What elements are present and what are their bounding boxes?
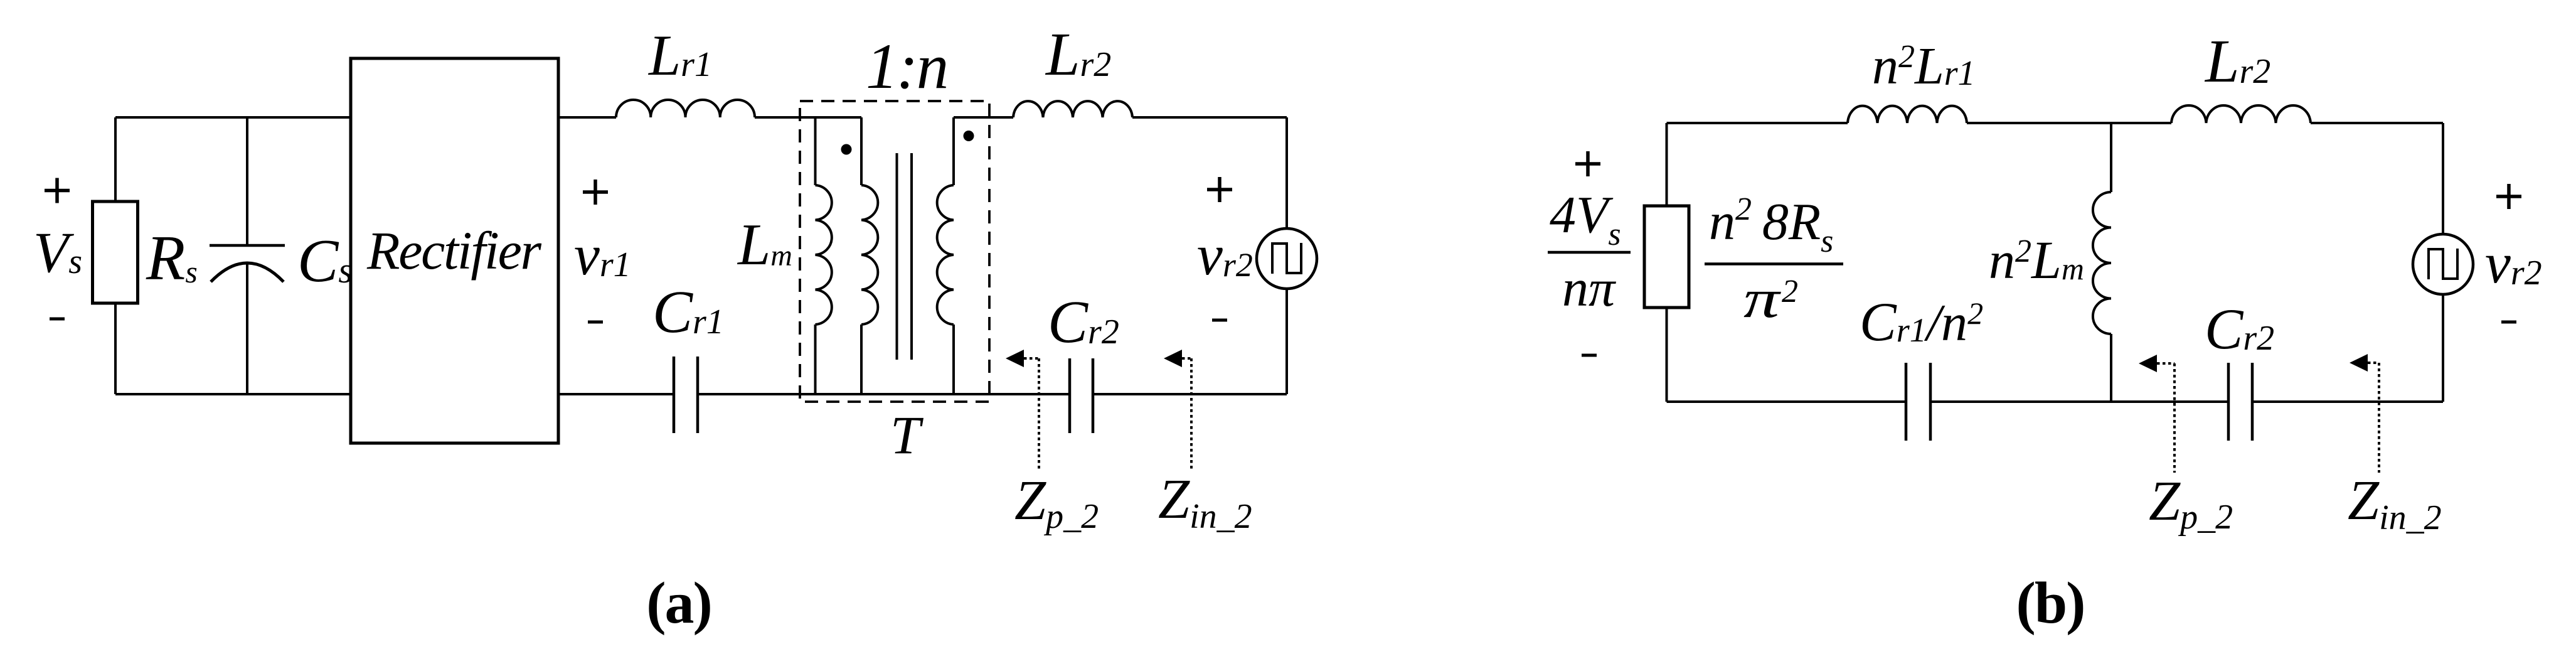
label + of source (b) (1575, 151, 1600, 176)
svg-text:T: T (890, 405, 923, 465)
transformer core (897, 153, 912, 360)
transformer T dashed box (800, 101, 989, 402)
wire left vertical upper (b) (1666, 123, 1668, 206)
wire left vertical lower (a) (114, 303, 117, 394)
wire Cr2 to right corner (bottom, a) (1093, 393, 1287, 395)
svg-text:(a): (a) (646, 571, 711, 636)
svg-text:(b): (b) (2016, 571, 2085, 636)
polarity dot primary (841, 144, 852, 155)
svg-text:n2 8Rs: n2 8Rs (1709, 191, 1833, 259)
wire top-left loop (a) (115, 116, 351, 119)
wire Cr1n2 to junction bottom (b) (1930, 400, 2228, 403)
source 4Vs/npi (rectangle) (b) (1644, 206, 1689, 308)
wire Cs lower lead (246, 263, 248, 394)
inductor n^2 Lr1 (b) (1848, 106, 1967, 123)
wire right vertical lower (a) (1285, 289, 1288, 394)
transformer primary winding (860, 117, 863, 185)
wire Lr1 to transformer primary (755, 116, 861, 119)
svg-text:2: 2 (1782, 274, 1798, 309)
arrow Zin_2 (b) (2350, 354, 2368, 372)
inductor Lr1 (616, 100, 755, 117)
wire Lr2 to right corner (b) (2311, 122, 2443, 124)
label + of vr1 (583, 180, 608, 205)
wire right vertical upper (a) (1285, 117, 1288, 228)
svg-text:π: π (1743, 268, 1782, 329)
wire junction down to n2Lm (2110, 123, 2112, 192)
wire secondary to Lr2 (954, 116, 1013, 119)
wire right vertical upper (b) (2442, 123, 2444, 235)
inductor Lr2 (b) (2171, 105, 2311, 123)
source vr2 (square-wave) (b) (2413, 234, 2473, 294)
wire rectifier to Cr1 (558, 393, 674, 395)
inductor Lm (magnetizing, left rail) (814, 117, 817, 185)
label + of vr2 (b) (2496, 184, 2521, 209)
label - of source (b) (1582, 354, 1597, 357)
wire left vertical lower (b) (1666, 308, 1668, 402)
arrow Zp_2 (b) (2139, 355, 2157, 372)
capacitor Cr2 (b) (2227, 363, 2230, 441)
label + of Vs (45, 178, 70, 203)
wire n2Lr1 to junction (b) (1967, 122, 2171, 124)
inductor n^2 Lm (b) (2093, 192, 2111, 334)
capacitor Cr2 (a) (1068, 358, 1072, 433)
label - of Vs (50, 318, 65, 321)
arrow Zp_2 (a) (1006, 350, 1024, 367)
source Vs (rectangle) (93, 201, 138, 303)
wire Cr1 to Cr2 (bottom) (698, 393, 1070, 395)
arrow Zin_2 (a) (1164, 350, 1182, 367)
source vr2 (square-wave) (a) (1257, 228, 1317, 289)
wire rectifier to Lr1 (558, 116, 616, 119)
rectifier block (351, 58, 558, 443)
polarity dot secondary (964, 131, 974, 141)
svg-text:Rectifier: Rectifier (366, 220, 542, 281)
wire right vertical lower (b) (2442, 294, 2444, 402)
capacitor Cr1/n^2 (b) (1905, 363, 1908, 441)
capacitor Cs (210, 244, 285, 247)
svg-text:1:n: 1:n (866, 31, 947, 102)
label - of vr2 (b) (2501, 321, 2516, 324)
wire bottom-left loop (a) (115, 393, 351, 395)
transformer secondary winding (952, 117, 955, 185)
wire top-left (b) (1667, 122, 1848, 124)
label + of vr2 (a) (1207, 177, 1232, 202)
label - of vr1 (588, 321, 603, 324)
inductor Lr2 (a) (1013, 101, 1132, 117)
svg-text:nπ: nπ (1562, 259, 1617, 318)
wire Cr2 to right corner (bottom, b) (2252, 400, 2443, 403)
wire Cs upper lead (246, 117, 248, 245)
capacitor Cr1 (673, 357, 676, 433)
label - of vr2 (a) (1212, 319, 1227, 322)
wire left vertical upper (a) (114, 117, 117, 201)
wire Lr2 to right corner (a) (1132, 116, 1287, 119)
wire bottom-left (b) (1667, 400, 1907, 403)
